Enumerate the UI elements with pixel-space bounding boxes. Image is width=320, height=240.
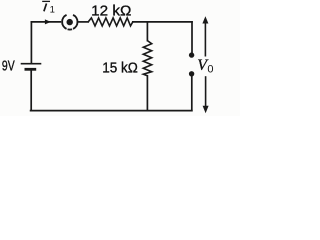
current source S1 right arc: [73, 15, 77, 29]
battery V1 9V: short negative plate: [25, 68, 37, 71]
current label I1 italic stem: [44, 4, 47, 12]
current source S1 center dot: [67, 19, 73, 25]
wire top-left horizontal segment (node A to current source): [31, 21, 60, 23]
current label I1 overbar: [42, 0, 50, 2]
current source S1 (circle with dot), left arc: [62, 15, 66, 29]
svg-text:15 kΩ: 15 kΩ: [102, 60, 138, 77]
V0 measurement arrow upper shaft: [204, 22, 206, 57]
svg-text:12 kΩ: 12 kΩ: [91, 2, 131, 19]
output terminal upper (node +): [189, 52, 194, 57]
svg-text:9V: 9V: [2, 59, 15, 75]
wire right edge upper (corner to terminal): [191, 22, 193, 53]
output terminal lower (node -): [189, 71, 194, 76]
wire right edge lower (terminal to bottom wire): [191, 76, 193, 110]
svg-text:1: 1: [50, 5, 55, 16]
wire top-left vertical (left edge, battery + to top wire): [30, 22, 32, 63]
wire top between current source and resistor R1: [79, 21, 89, 23]
battery V1 9V: long positive plate: [21, 63, 42, 65]
wire top between junction node B and top-right corner: [147, 21, 192, 23]
wire middle branch upper (node B to resistor R2): [146, 22, 148, 41]
current source S1 bottom arc: [68, 28, 73, 30]
wire top between resistor R1 and junction node B: [133, 21, 148, 23]
wire left edge below battery: [30, 70, 32, 111]
V0 measurement arrow upper head: [202, 16, 208, 23]
V0 measurement arrow lower head: [203, 106, 209, 113]
current arrow I1 on top wire (arrowhead): [45, 19, 51, 24]
wire middle branch lower (resistor R2 to bottom wire): [146, 76, 148, 111]
wire bottom horizontal: [31, 110, 192, 112]
resistor R2 15 kOhm vertical zigzag: [143, 41, 151, 76]
svg-text:0: 0: [207, 64, 213, 76]
resistor R1 12 kOhm zigzag: [88, 18, 133, 26]
V0 measurement arrow lower shaft: [205, 76, 207, 107]
